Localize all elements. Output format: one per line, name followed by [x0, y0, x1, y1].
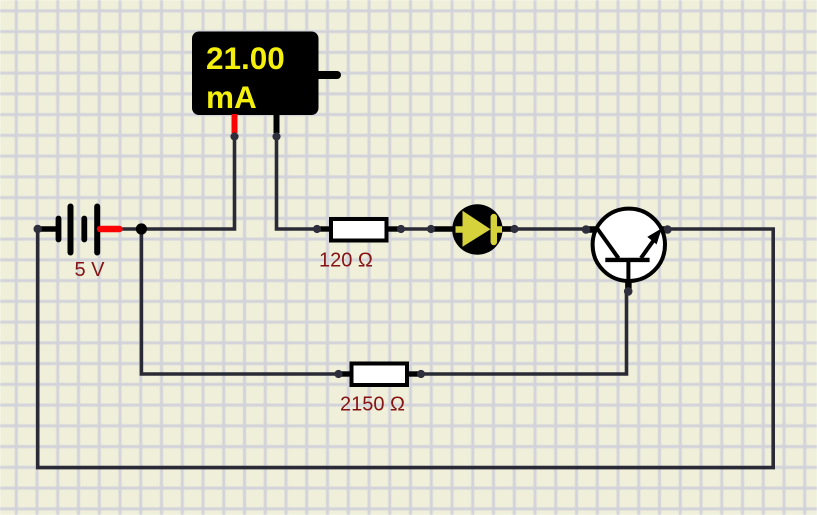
wire: node A down to resistor R2: [141, 229, 338, 374]
base vertical lead: [626, 260, 630, 286]
ammeter M1 body: [192, 32, 337, 141]
tall plate 2 (positive): [94, 207, 100, 253]
battery BAT1 5V: [34, 207, 120, 253]
transistor Q1: [582, 209, 672, 296]
wire: LED to transistor collector: [515, 227, 587, 231]
svg-text:5 V: 5 V: [75, 259, 106, 281]
emitter diagonal with arrow: [641, 237, 656, 258]
wire: R2 to transistor base: [421, 291, 627, 374]
resistor R2 2150 ohm: [334, 364, 425, 386]
wire: battery negative to bottom rail, right rail, up to emitter: [38, 229, 774, 468]
LED cathode lead (yellow): [494, 226, 502, 233]
tall plate 1: [68, 207, 74, 253]
svg-text:mA: mA: [206, 79, 257, 115]
base bar: [605, 258, 649, 262]
wire: R1 to LED: [401, 227, 431, 231]
node A junction dot: [136, 223, 147, 234]
short plate 2: [81, 219, 87, 240]
ammeter negative pin (black): [274, 114, 280, 133]
svg-text:2150 Ω: 2150 Ω: [340, 394, 405, 416]
emitter pin stub: [660, 226, 669, 233]
LED cathode bar: [491, 217, 498, 242]
wire: node A to ammeter positive pin: [141, 136, 234, 229]
collector diagonal: [597, 228, 619, 259]
collector pin stub: [586, 226, 598, 233]
wire: battery positive to node A: [120, 227, 141, 231]
svg-text:21.00: 21.00: [206, 40, 285, 76]
wire: ammeter negative pin to resistor R1: [277, 136, 318, 229]
LED D1: [427, 204, 519, 254]
LED triangle: [463, 211, 491, 247]
ammeter positive pin (red): [232, 114, 238, 133]
resistor R1 120 ohm: [313, 219, 405, 241]
transistor body circle: [593, 209, 665, 281]
LED anode lead (yellow): [456, 226, 465, 233]
negative lead stub: [38, 226, 56, 232]
positive red lead: [100, 226, 120, 232]
svg-text:120 Ω: 120 Ω: [319, 250, 373, 272]
negative short plate: [56, 219, 62, 240]
ammeter side stub: [318, 71, 337, 79]
